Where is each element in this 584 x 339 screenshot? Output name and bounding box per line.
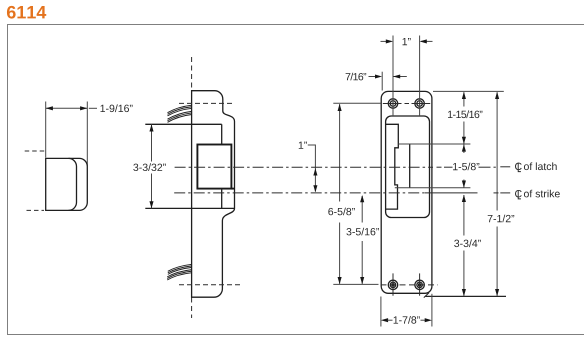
- housing rounded box: [386, 116, 430, 218]
- dimension 6-5/8: [339, 104, 341, 201]
- lip top edge / extension 3-3/32 top: [145, 123, 221, 125]
- vertical centerline of side view: [191, 57, 193, 90]
- hidden screw centerline top: [179, 102, 235, 104]
- keeper right edge: [409, 144, 411, 188]
- extension lines bottom width: [380, 297, 382, 327]
- extension line top screw centerline: [333, 102, 381, 104]
- dimension 3-5/16: [361, 196, 363, 223]
- bottom holes vertical crosshairs: [392, 273, 394, 295]
- dimension 1-7/8: [381, 318, 388, 322]
- dimension 1 inch top: [381, 40, 392, 42]
- label C of latch: [515, 163, 522, 170]
- side view inner face line below box: [221, 189, 223, 209]
- dimension 7-1/2: [496, 92, 498, 210]
- top holes vertical crosshair / extension lines: [392, 36, 394, 117]
- extension line plate bottom right: [426, 295, 507, 297]
- extension line bottom screw centerline: [333, 283, 378, 285]
- dimension text 1-9/16: [100, 104, 132, 112]
- screw hole top-left: [388, 99, 397, 108]
- dimension text 3-3/32: [133, 163, 165, 171]
- dimension 7/16: [346, 73, 367, 81]
- label C of strike: [515, 190, 522, 197]
- keeper stepped outline: [385, 124, 398, 209]
- left end view: extension line left: [45, 102, 47, 158]
- side view inner face line: [221, 124, 223, 144]
- break squiggle bottom-left: [168, 264, 192, 271]
- break squiggle top-left: [168, 105, 192, 113]
- hidden screw centerline bottom: [179, 284, 240, 286]
- dimension line 1-9/16: [46, 107, 88, 109]
- dimension 1 inch between centerlines: [299, 142, 307, 149]
- lip bottom edge / extension 3-3/32 bottom: [145, 207, 234, 209]
- left end view: extension line right: [86, 102, 88, 167]
- side view box bottom edge extension to lip: [231, 188, 234, 190]
- dimension 1-5/8: [463, 144, 465, 153]
- hidden line stub bottom: [27, 209, 45, 211]
- side view strike box (thick): [197, 145, 231, 189]
- dimension 1-15/16: [463, 92, 465, 106]
- side view body outline: [192, 91, 235, 298]
- extension line plate left edge top: [381, 72, 383, 91]
- bottom holes horizontal dashed centerline: [381, 284, 439, 286]
- title 6114: [7, 6, 46, 19]
- screw hole bottom-right: [415, 280, 424, 289]
- hidden line stub top: [25, 150, 45, 152]
- screw hole top-right: [415, 99, 424, 108]
- keeper top edge + extension for 1-15/16 / 1-5/8: [398, 143, 470, 145]
- centerline of strike: [174, 192, 425, 194]
- front plate outline: [381, 91, 432, 293]
- top holes horizontal crosshair: [383, 103, 402, 105]
- left end view inner lip contour: [69, 158, 77, 210]
- dimension 3-3/4: [463, 195, 465, 236]
- extension line plate top right: [433, 90, 504, 92]
- corner tick plate bottom right: [424, 293, 429, 298]
- keeper bottom edge + extension: [395, 187, 471, 189]
- screw hole bottom-left: [388, 280, 397, 289]
- left end view outline (D profile): [46, 158, 88, 210]
- centerline of latch: [175, 166, 433, 168]
- dimension line 3-3/32: [151, 124, 153, 161]
